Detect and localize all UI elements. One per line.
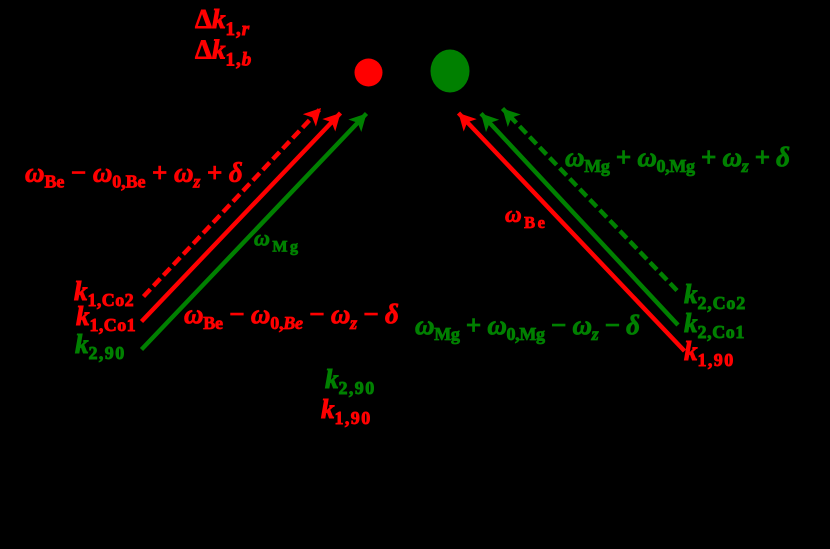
arrow k2,Co1 green solid right	[481, 114, 678, 326]
svg-text:ωMg: ωMg	[254, 226, 301, 256]
svg-text:ωMg + ω0,Mg − ωz − δ: ωMg + ω0,Mg − ωz − δ	[415, 310, 640, 344]
svg-text:ωBe − ω0,Be + ωz + δ: ωBe − ω0,Be + ωz + δ	[25, 158, 243, 192]
ion Be (red circle)	[355, 59, 383, 87]
svg-text:k1,90: k1,90	[321, 394, 372, 428]
svg-text:ωBe: ωBe	[505, 202, 547, 232]
svg-text:k2,90: k2,90	[325, 364, 376, 398]
svg-text:ωBe − ω0,Be − ωz − δ: ωBe − ω0,Be − ωz − δ	[184, 299, 399, 333]
arrow k2,90 green solid left	[142, 114, 367, 350]
arrow k1,Co1 red solid left	[142, 113, 341, 322]
ion Mg (green circle)	[431, 50, 470, 93]
svg-text:ωMg + ω0,Mg + ωz + δ: ωMg + ω0,Mg + ωz + δ	[565, 142, 790, 176]
arrow k2,Co2 green dashed right	[503, 109, 678, 291]
arrow k1,Co2 red dashed left	[144, 108, 322, 297]
arrow k1,90 red solid right	[459, 113, 685, 351]
